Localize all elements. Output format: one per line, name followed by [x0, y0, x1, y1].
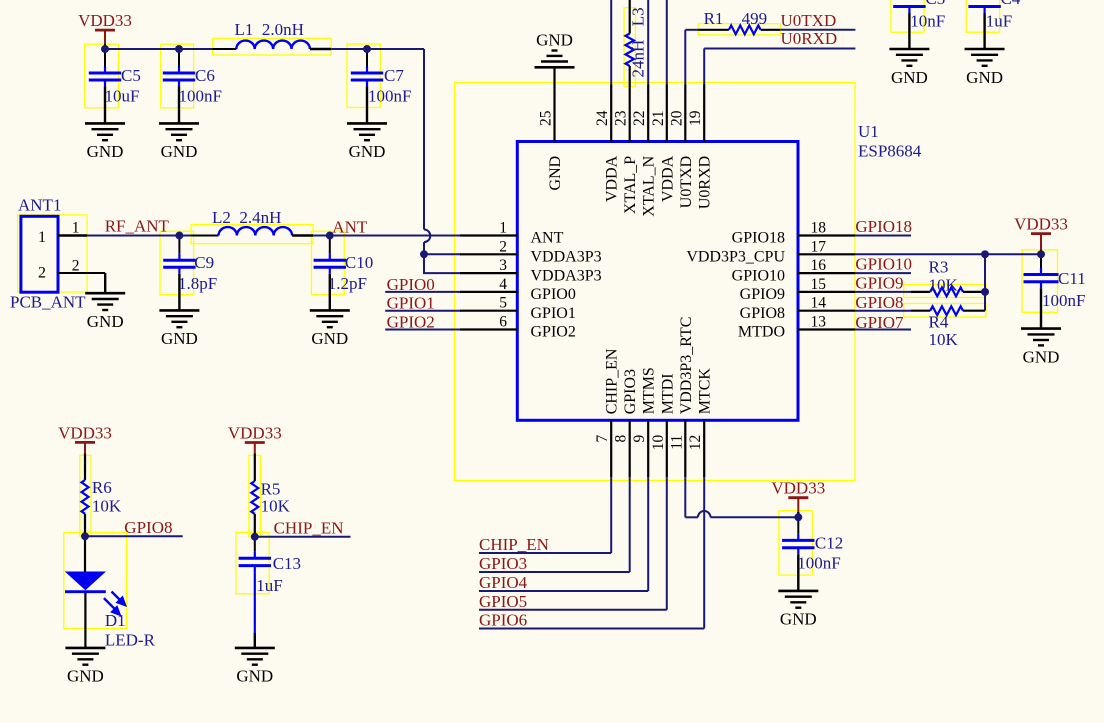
ground for C4 — [965, 49, 1005, 87]
svg-text:R6: R6 — [92, 478, 112, 497]
selection box R4 — [904, 304, 986, 318]
pin 22 stub — [647, 85, 649, 142]
pin 7 stub — [610, 420, 612, 477]
resistor R6 — [82, 453, 122, 536]
svg-text:25: 25 — [538, 110, 555, 126]
power VDD33 (C5 rail) — [78, 11, 132, 46]
capacitor C13 — [239, 537, 301, 648]
svg-text:GND: GND — [161, 142, 198, 161]
selection box L3 — [624, 8, 635, 87]
wire GPIO2 — [385, 329, 461, 331]
wire pin24 VDDA up — [610, 0, 612, 85]
wire GPIO4 bottom — [647, 477, 649, 591]
wire GPIO9 — [855, 291, 911, 293]
svg-text:1: 1 — [38, 229, 46, 246]
pin 13 stub — [798, 328, 855, 330]
svg-text:PCB_ANT: PCB_ANT — [10, 293, 86, 312]
svg-text:ANT: ANT — [531, 230, 564, 247]
svg-text:C4: C4 — [1001, 0, 1021, 8]
inductor L1 — [213, 20, 331, 49]
svg-text:6: 6 — [499, 314, 507, 331]
selection box C12 — [779, 511, 812, 575]
svg-text:MTDI: MTDI — [659, 373, 676, 414]
svg-text:VDD3P3_RTC: VDD3P3_RTC — [678, 317, 695, 415]
ground for C3 — [889, 49, 929, 87]
svg-text:VDDA3P3: VDDA3P3 — [531, 249, 602, 266]
svg-text:CHIP_EN: CHIP_EN — [274, 518, 344, 537]
wire L2 to C10 — [313, 235, 461, 237]
svg-text:CHIP_EN: CHIP_EN — [604, 348, 621, 414]
pin 10 stub — [666, 420, 668, 477]
pin 23 stub — [629, 85, 631, 142]
svg-text:22: 22 — [631, 111, 648, 127]
svg-text:21: 21 — [650, 111, 667, 127]
svg-text:VDD3P3_CPU: VDD3P3_CPU — [686, 249, 785, 266]
svg-text:XTAL_P: XTAL_P — [622, 156, 639, 214]
selection box C11 — [1022, 250, 1058, 312]
resistor R4 — [911, 306, 985, 349]
svg-text:L3: L3 — [629, 7, 648, 26]
junction at C11 — [1037, 250, 1045, 258]
svg-text:GND: GND — [349, 142, 386, 161]
svg-text:VDD33: VDD33 — [1014, 215, 1068, 234]
svg-text:2: 2 — [72, 257, 80, 274]
pin 18 stub — [798, 234, 855, 236]
pin 16 stub — [798, 272, 855, 274]
selection box C5 — [85, 44, 119, 108]
wire GPIO6 bottom — [703, 477, 705, 628]
svg-text:U0TXD: U0TXD — [781, 11, 837, 30]
svg-text:U0RXD: U0RXD — [781, 29, 838, 48]
junction at C6 — [175, 45, 183, 53]
power VDD33 (R5) — [228, 424, 282, 454]
selection box R3 — [904, 285, 986, 298]
LED D1 — [65, 536, 156, 649]
svg-text:GND: GND — [67, 667, 104, 686]
capacitor C7 — [351, 49, 412, 123]
svg-text:GPIO3: GPIO3 — [622, 369, 639, 414]
svg-text:23: 23 — [613, 110, 630, 126]
ground for C11 — [1021, 329, 1061, 367]
wire GPIO1 — [385, 310, 461, 312]
pin 8 stub — [629, 420, 631, 477]
svg-text:R3: R3 — [929, 258, 949, 277]
pin 14 stub — [798, 310, 855, 312]
svg-text:C7: C7 — [384, 66, 404, 85]
svg-text:ANT: ANT — [332, 218, 368, 237]
svg-text:100nF: 100nF — [1042, 291, 1085, 310]
svg-text:10uF: 10uF — [105, 87, 140, 106]
junction at C5 — [101, 45, 109, 53]
wire pin21 VDDA up — [666, 0, 668, 85]
svg-text:GPIO18: GPIO18 — [732, 230, 785, 247]
junction VDD3P3_CPU branch — [981, 250, 989, 258]
svg-text:GND: GND — [87, 142, 124, 161]
svg-text:18: 18 — [811, 220, 827, 237]
svg-text:C12: C12 — [815, 534, 843, 553]
selection box R5 — [249, 455, 261, 536]
svg-text:VDD33: VDD33 — [228, 424, 282, 443]
svg-text:10K: 10K — [261, 497, 291, 516]
svg-text:100nF: 100nF — [179, 87, 222, 106]
svg-text:GPIO10: GPIO10 — [732, 267, 785, 284]
svg-text:VDD33: VDD33 — [771, 479, 825, 498]
wire pin19 U0RXD — [703, 49, 705, 85]
pin 6 stub — [460, 328, 517, 330]
ground for C12 — [778, 591, 818, 629]
wire CHIP_EN rc — [255, 536, 351, 538]
selection box C3 — [891, 0, 924, 32]
svg-text:GND: GND — [891, 68, 928, 87]
svg-text:VDD33: VDD33 — [78, 11, 132, 30]
pin 9 stub — [647, 420, 649, 477]
ground for C10 — [310, 310, 350, 348]
wire VDD33 rail to L1 — [105, 48, 213, 50]
svg-text:R1: R1 — [704, 9, 724, 28]
ground for pin 25 (flipped) — [535, 30, 575, 67]
ground for ANT1 pin2 — [85, 293, 125, 331]
ground for C9 — [159, 310, 199, 348]
junction GPIO8 — [81, 532, 89, 540]
wire GPIO3 bottom — [629, 477, 631, 572]
ground for C5 — [85, 123, 125, 161]
connector ANT1 — [10, 196, 105, 312]
pin 17 stub — [798, 253, 855, 255]
svg-text:24: 24 — [594, 110, 611, 126]
svg-text:GPIO8: GPIO8 — [124, 518, 172, 537]
svg-text:CHIP_EN: CHIP_EN — [479, 535, 549, 554]
svg-text:3: 3 — [499, 257, 507, 274]
wire GPIO18 — [855, 235, 911, 237]
junction at C7 — [363, 45, 371, 53]
wire GPIO8 right — [855, 310, 911, 312]
wire pin25 to ground — [553, 67, 555, 84]
svg-text:16: 16 — [811, 257, 827, 274]
ground for C13 — [235, 648, 275, 686]
svg-text:10K: 10K — [929, 275, 959, 294]
power VDD33 (R6) — [58, 423, 112, 453]
selection box R1 — [698, 24, 780, 35]
svg-text:GPIO5: GPIO5 — [479, 592, 527, 611]
svg-text:MTMS: MTMS — [641, 367, 658, 414]
svg-text:XTAL_N: XTAL_N — [641, 155, 658, 216]
svg-text:9: 9 — [631, 435, 648, 443]
svg-text:GND: GND — [161, 329, 198, 348]
selection box ANT1 — [18, 215, 88, 292]
svg-text:MTDO: MTDO — [738, 324, 785, 341]
resistor R3 — [911, 258, 985, 297]
selection box D1 — [64, 532, 127, 628]
power VDD33 (C12) — [771, 479, 825, 512]
svg-text:14: 14 — [811, 295, 827, 312]
svg-text:GPIO0: GPIO0 — [531, 286, 576, 303]
capacitor C11 — [1024, 250, 1086, 329]
pin 5 stub — [460, 310, 517, 312]
wire GPIO10 — [855, 272, 911, 274]
svg-text:100nF: 100nF — [368, 87, 411, 106]
svg-text:100nF: 100nF — [797, 554, 840, 573]
svg-text:C3: C3 — [925, 0, 945, 8]
svg-text:5: 5 — [499, 295, 507, 312]
pin 4 stub — [460, 291, 517, 293]
svg-text:GND: GND — [547, 156, 564, 191]
capacitor C9 — [163, 236, 217, 311]
power VDD33 (C11) — [1014, 215, 1068, 252]
svg-text:10K: 10K — [929, 330, 959, 349]
svg-text:17: 17 — [811, 238, 827, 255]
pin 1 stub — [460, 234, 517, 236]
svg-text:15: 15 — [811, 276, 827, 293]
svg-text:GND: GND — [87, 312, 124, 331]
junction at C12 — [794, 513, 802, 521]
wire VDD33 to C12 junction — [797, 512, 799, 517]
svg-text:L1 2.0nH: L1 2.0nH — [235, 20, 304, 39]
ground for C6 — [159, 123, 199, 161]
junction at C10 — [326, 232, 334, 240]
pin 11 stub — [684, 420, 686, 477]
pin 21 stub — [666, 85, 668, 142]
selection box L1 — [213, 38, 332, 55]
svg-text:GND: GND — [536, 30, 573, 49]
svg-text:VDD33: VDD33 — [58, 423, 112, 442]
svg-text:10nF: 10nF — [910, 12, 945, 31]
pin 12 stub — [703, 420, 705, 477]
wire GPIO5 bottom — [666, 477, 668, 610]
pin 3 stub — [460, 272, 517, 274]
wire pin20 U0TXD — [684, 30, 686, 85]
capacitor C4 — [968, 0, 1021, 49]
ground for C7 — [347, 123, 387, 161]
svg-text:1.8pF: 1.8pF — [178, 274, 217, 293]
svg-text:U1: U1 — [858, 122, 879, 141]
svg-text:MTCK: MTCK — [697, 368, 714, 415]
svg-text:GPIO1: GPIO1 — [531, 305, 576, 322]
svg-text:10K: 10K — [92, 497, 122, 516]
svg-text:VDDA: VDDA — [604, 155, 621, 202]
svg-text:GPIO4: GPIO4 — [479, 573, 528, 592]
svg-text:2: 2 — [38, 265, 46, 282]
selection box C7 — [347, 44, 380, 107]
wire VDD3P3_RTC — [685, 477, 798, 517]
svg-text:499: 499 — [742, 9, 768, 28]
wire CHIP_EN bottom — [610, 477, 612, 553]
svg-text:C13: C13 — [273, 554, 301, 573]
svg-text:1uF: 1uF — [986, 12, 1012, 31]
selection box C13 — [236, 532, 269, 593]
svg-text:GND: GND — [780, 610, 817, 629]
selection box L2 — [191, 225, 313, 244]
svg-text:1.2pF: 1.2pF — [328, 274, 367, 293]
svg-text:ANT1: ANT1 — [18, 196, 61, 215]
junction dots overlay — [81, 45, 1045, 541]
svg-text:GND: GND — [1023, 347, 1060, 366]
svg-text:GPIO18: GPIO18 — [855, 217, 912, 236]
svg-text:C10: C10 — [345, 253, 373, 272]
svg-text:24nH: 24nH — [629, 40, 648, 78]
selection box C10 — [311, 231, 344, 295]
wire GPIO7 — [855, 329, 911, 331]
inductor L3 — [626, 0, 648, 85]
svg-text:8: 8 — [613, 435, 630, 443]
selection box C4 — [966, 0, 999, 32]
svg-text:10: 10 — [650, 435, 667, 451]
svg-text:GPIO8: GPIO8 — [740, 305, 785, 322]
wire pullup vertical — [984, 254, 986, 310]
pin 2 stub — [460, 253, 517, 255]
svg-text:GPIO8: GPIO8 — [855, 293, 903, 312]
wire VDDA3P3 vertical drop — [424, 49, 430, 273]
selection box U1 — [454, 83, 855, 481]
svg-text:GND: GND — [236, 667, 273, 686]
wire RF_ANT — [87, 235, 191, 237]
svg-text:20: 20 — [668, 110, 685, 126]
svg-text:GND: GND — [311, 329, 348, 348]
wire L1 to C7 — [331, 48, 424, 50]
svg-text:RF_ANT: RF_ANT — [105, 217, 170, 236]
wire to pin 2 — [424, 253, 461, 255]
svg-text:ESP8684: ESP8684 — [858, 142, 922, 161]
svg-text:U0RXD: U0RXD — [697, 156, 714, 209]
svg-text:GPIO9: GPIO9 — [855, 274, 903, 293]
junction CHIP_EN — [251, 533, 259, 541]
svg-text:1: 1 — [499, 220, 507, 237]
pin 25 stub — [553, 85, 555, 142]
svg-text:13: 13 — [811, 314, 827, 331]
svg-text:4: 4 — [499, 276, 507, 293]
wire to pin 3 — [423, 272, 461, 274]
selection box C9 — [160, 231, 194, 295]
selection box R6 — [80, 455, 91, 536]
selection box C6 — [161, 44, 194, 108]
svg-text:GPIO6: GPIO6 — [479, 611, 527, 630]
svg-text:LED-R: LED-R — [105, 631, 156, 650]
ground for D1 — [65, 648, 105, 686]
inductor L2 — [191, 208, 313, 236]
svg-text:R4: R4 — [929, 312, 949, 331]
resistor R1 — [698, 9, 780, 34]
svg-text:GND: GND — [966, 68, 1003, 87]
capacitor C5 — [89, 44, 141, 123]
capacitor C6 — [163, 49, 222, 123]
svg-text:C9: C9 — [194, 253, 214, 272]
svg-text:1: 1 — [72, 220, 80, 237]
pin 24 stub — [610, 85, 612, 142]
svg-text:C11: C11 — [1058, 269, 1086, 288]
svg-text:2: 2 — [499, 238, 507, 255]
svg-text:GPIO10: GPIO10 — [855, 255, 912, 274]
svg-text:GPIO9: GPIO9 — [740, 286, 785, 303]
svg-text:U0TXD: U0TXD — [678, 156, 695, 208]
wire pin22 XTAL_N up — [647, 0, 649, 85]
svg-text:19: 19 — [687, 110, 704, 126]
svg-text:VDDA3P3: VDDA3P3 — [531, 267, 602, 284]
wire VDD3P3_CPU — [855, 253, 1041, 255]
svg-text:11: 11 — [668, 435, 685, 450]
svg-text:1uF: 1uF — [256, 576, 282, 595]
svg-text:VDDA: VDDA — [659, 155, 676, 202]
svg-text:C6: C6 — [195, 66, 215, 85]
wire GPIO8 led — [85, 535, 183, 537]
svg-text:GPIO3: GPIO3 — [479, 554, 527, 573]
svg-text:R5: R5 — [261, 479, 281, 498]
resistor R5 — [251, 453, 290, 537]
junction at C9 — [176, 232, 184, 240]
pin 19 stub — [703, 85, 705, 142]
junction VDDA3P3 pin2 — [420, 250, 428, 258]
capacitor C12 — [782, 517, 843, 591]
junction R3 right — [981, 288, 989, 296]
pin 15 stub — [798, 291, 855, 293]
pin 20 stub — [684, 85, 686, 142]
svg-text:7: 7 — [594, 435, 611, 443]
chip U1 ESP8684 body — [517, 142, 798, 421]
svg-text:L2 2.4nH: L2 2.4nH — [212, 208, 281, 227]
capacitor C10 — [314, 236, 374, 311]
svg-text:12: 12 — [687, 435, 704, 451]
svg-text:C5: C5 — [121, 66, 141, 85]
wire U0TXD — [780, 29, 855, 31]
wire GPIO0 — [385, 291, 461, 293]
capacitor C3 — [893, 0, 945, 49]
svg-text:GPIO2: GPIO2 — [531, 324, 576, 341]
svg-text:D1: D1 — [105, 611, 126, 630]
